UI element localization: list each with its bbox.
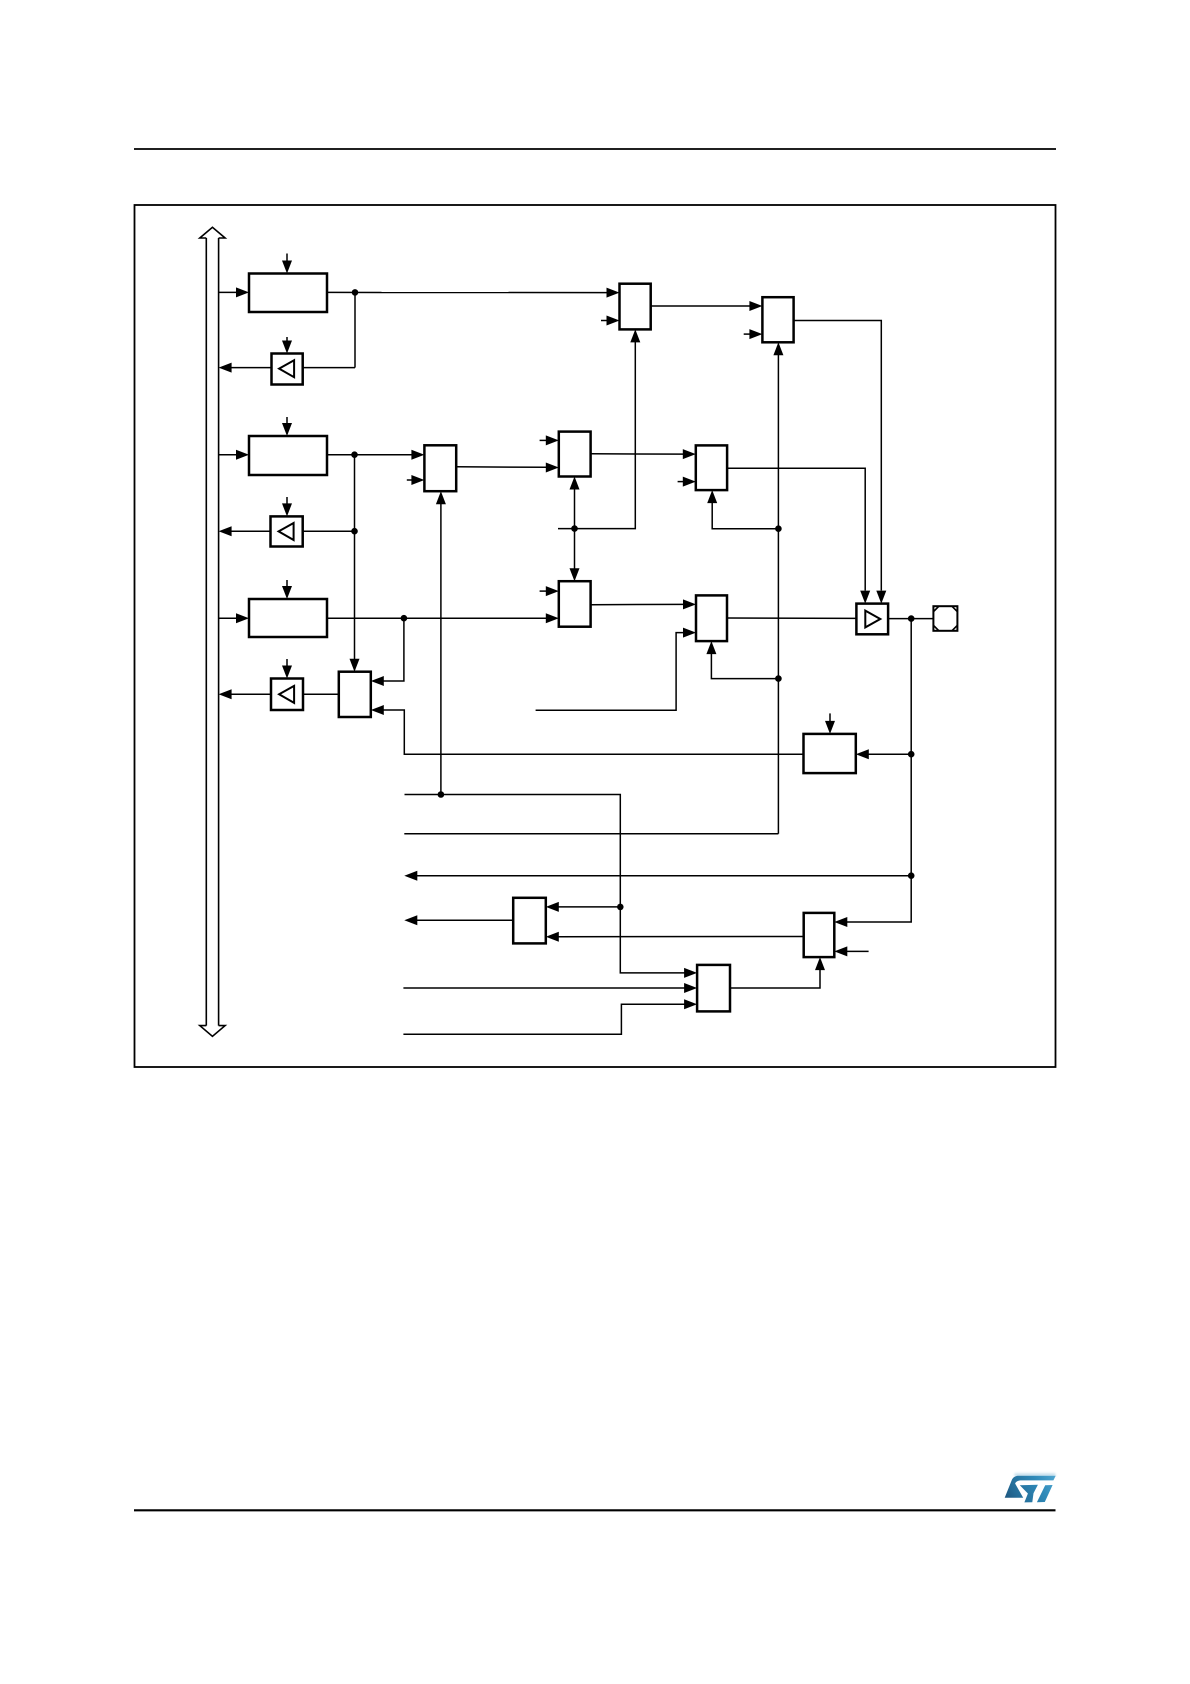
wire: open input to K bottom <box>403 1004 686 1034</box>
wire: feedback branch into D bottom <box>711 653 778 679</box>
node: junction pad feedback at filter row <box>908 751 915 758</box>
readback buffer box T1 <box>272 354 303 385</box>
wire: BUF output to I/O pad <box>888 618 933 620</box>
wire: feedback line to net (open left end) <box>404 833 778 835</box>
node: junction clock net at capture row <box>617 904 624 911</box>
buffer triangle inside T2 <box>279 523 294 540</box>
node: junction on B-C transfer wire <box>571 525 578 532</box>
slave mode controller box G <box>339 672 371 717</box>
wire: R2 output to prescaler P <box>327 454 413 456</box>
wire: capture output to bus side (arrow left, open end) <box>416 875 911 877</box>
header rule <box>134 148 1056 150</box>
wire: C output to comparator D <box>591 603 685 605</box>
wire: A output to output control E <box>651 305 751 307</box>
I/O pad octagon <box>933 606 957 631</box>
stub input arrow into B upper left <box>540 439 547 441</box>
wire: R2 branch down to slave controller G <box>354 455 356 660</box>
stub input arrow into E lower left <box>744 333 751 335</box>
wire: open input to K middle <box>403 987 686 989</box>
wire: bus to R2 input <box>219 454 237 456</box>
wire: pad signal into H right input <box>867 753 911 755</box>
stub input arrow into C upper left <box>540 590 547 592</box>
wire: filter H output to G lower right input <box>382 710 804 754</box>
wire: branch to readback buffer T2 <box>303 530 355 532</box>
buffer triangle inside T3 <box>279 686 294 703</box>
stub input arrow into J lower right <box>846 950 869 952</box>
node: junction feedback/D row <box>775 675 782 682</box>
write strobe arrow into R2 top <box>286 417 288 434</box>
wire: clock net branch into I right top <box>557 906 620 908</box>
wire: transfer tap to comparator A <box>558 341 635 529</box>
wire: clock distribution net <box>405 795 687 973</box>
wire: R3 output to capture/compare C <box>327 617 547 619</box>
preload register box B <box>559 432 591 477</box>
node: junction on R3 output <box>401 615 408 622</box>
wire: B output to counter F <box>591 453 684 455</box>
node: junction feedback/F row <box>775 525 782 532</box>
buffer triangle inside BUF <box>865 611 880 628</box>
register box R2 (row 2 preload register) <box>249 436 327 475</box>
wire: E output down to output buffer BUF <box>794 321 882 591</box>
wire: open input into D second left input <box>536 633 685 711</box>
wire: feedback branch into F bottom <box>712 503 778 529</box>
wire: T2 output to bus (arrow left) <box>230 530 271 532</box>
readback buffer box T2 <box>271 516 303 546</box>
node: junction pad feedback at capture row <box>908 872 915 879</box>
write strobe arrow into R3 top <box>286 580 288 597</box>
read strobe arrow into T3 top <box>286 659 288 676</box>
wire: clock line up into P bottom <box>440 503 442 795</box>
stub input arrow into A lower left <box>601 320 608 322</box>
ST logo <box>1005 1471 1056 1502</box>
transfer wire between B and C (double arrow) <box>574 488 576 529</box>
comparator box D <box>696 595 727 641</box>
wire: F output down to output buffer BUF <box>727 468 865 590</box>
wire: long feedback up into E bottom <box>777 354 779 834</box>
wire: J output to I lower right input <box>557 936 804 938</box>
counter box F <box>696 445 727 490</box>
wire: I output to bus side (arrow left, open end) <box>416 919 513 921</box>
node: junction at T2 row <box>351 528 358 535</box>
wire: K output up into J bottom <box>730 969 820 989</box>
node: junction on R2 output <box>351 451 358 458</box>
wire: T3 output to bus (arrow left) <box>230 693 271 695</box>
wire: D output to output buffer BUF <box>727 617 856 619</box>
node: junction on R1 output <box>352 289 359 296</box>
input filter box H <box>804 734 856 773</box>
wire: P output to preload B <box>456 466 547 469</box>
stub strobe arrow into H top <box>829 713 831 723</box>
output control box E <box>762 297 793 342</box>
readback buffer box T3 <box>271 679 303 711</box>
footer rule <box>134 1509 1056 1511</box>
compare register box C <box>559 581 591 627</box>
wire: R1 output to comparator A <box>327 291 608 293</box>
capture box I <box>513 898 546 944</box>
read strobe arrow into T2 top <box>286 497 288 514</box>
write strobe arrow into R1 top <box>286 254 288 272</box>
I/O pad symbol (square) <box>933 606 957 631</box>
wire: T1 output to bus (arrow left) <box>230 367 272 369</box>
wire: R1 output branch down to readback buffer T1 <box>354 292 356 367</box>
node: junction clock net to prescaler <box>438 791 445 798</box>
edge detector box J <box>804 913 835 957</box>
register box R3 (row 3 preload register) <box>249 599 327 637</box>
wire: T3 input from slave controller G <box>303 693 339 695</box>
wire: R3 branch down into G right top input <box>382 618 404 681</box>
output buffer box BUF <box>856 604 888 635</box>
stub input arrow into F lower left <box>678 481 684 483</box>
prescaler box P <box>424 445 456 491</box>
wire: pad feedback down to J <box>846 619 912 922</box>
buffer triangle inside T1 <box>279 360 294 377</box>
register box R1 (row 1 preload register) <box>249 274 327 313</box>
stub input arrow into P lower left <box>407 479 413 481</box>
wire: bus to R1 input <box>219 291 237 293</box>
diagram frame <box>135 205 1056 1067</box>
wire: bus to R3 input <box>219 617 237 619</box>
node: junction on pad wire <box>908 615 915 622</box>
trigger selection box K <box>697 965 730 1012</box>
internal bus (vertical double-headed block arrow) <box>200 227 225 238</box>
read strobe arrow into T1 top <box>286 337 288 351</box>
comparator box A <box>620 284 651 330</box>
